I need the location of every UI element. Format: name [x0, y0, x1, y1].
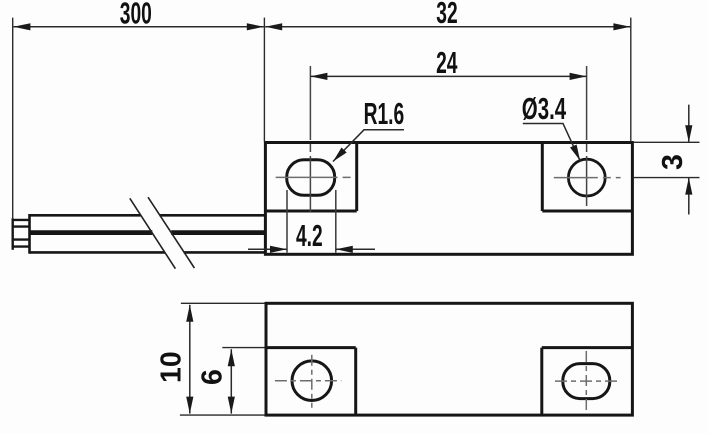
svg-text:300: 300 [120, 0, 152, 31]
svg-text:10: 10 [156, 351, 188, 383]
svg-text:Ø3.4: Ø3.4 [522, 90, 567, 125]
svg-text:4.2: 4.2 [296, 219, 323, 253]
svg-text:32: 32 [436, 0, 457, 30]
svg-text:24: 24 [436, 46, 458, 80]
svg-text:6: 6 [196, 369, 228, 385]
svg-text:R1.6: R1.6 [364, 97, 405, 131]
svg-text:3: 3 [657, 154, 689, 170]
